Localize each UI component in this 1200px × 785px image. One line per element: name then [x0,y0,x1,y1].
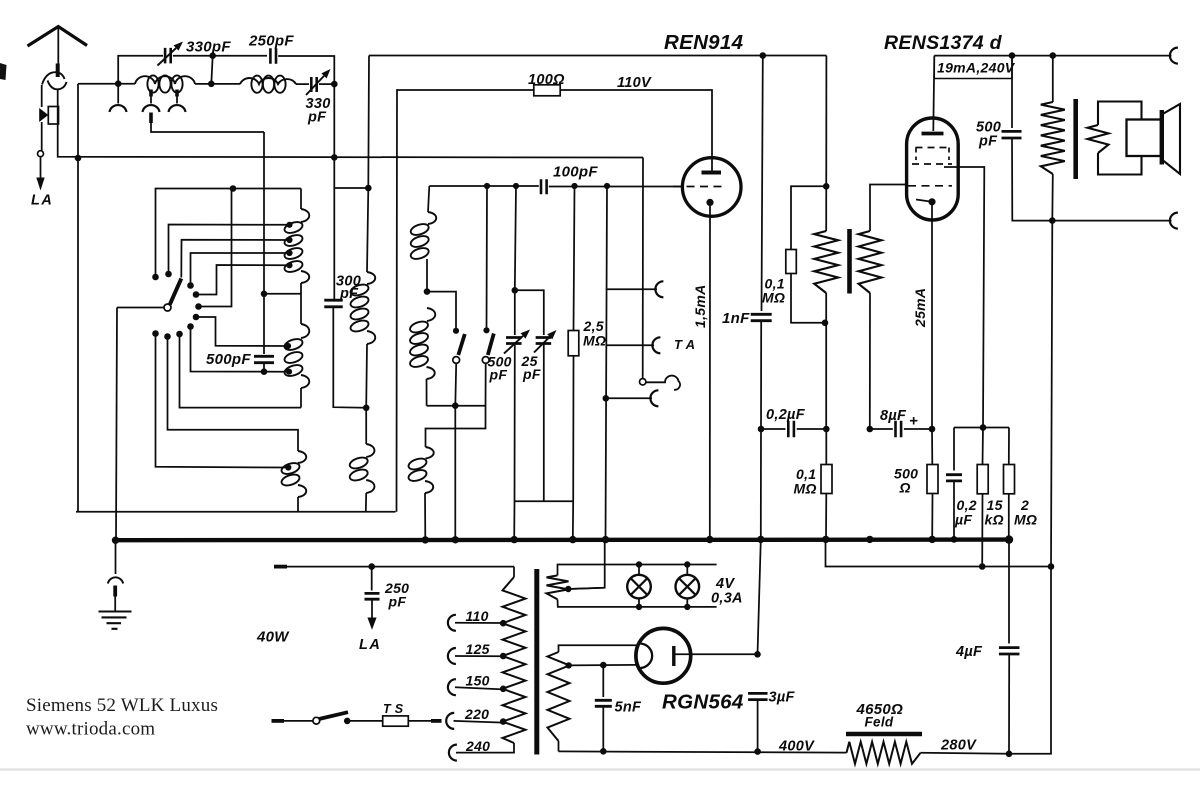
svg-text:pF: pF [339,286,359,302]
svg-text:T S: T S [383,702,404,716]
tube REN914 anode [702,171,722,175]
wire switch S2b column [486,186,489,328]
svg-text:0,3A: 0,3A [711,591,743,607]
svg-text:280V: 280V [940,738,977,754]
speaker cone bar [1160,110,1164,165]
wire contact j to mid coil bottom [180,334,302,408]
scan artefact bottom band [0,768,1200,770]
terminal lower [606,397,652,399]
trimmer capacitor 330pF no.2 [311,77,316,92]
resistor 15kohm [982,428,985,465]
svg-text:Ω: Ω [899,480,911,496]
svg-text:25mA: 25mA [912,288,928,328]
coil L3 middle section [301,324,309,338]
svg-text:+: + [909,413,918,430]
tube REN914 cathode [706,199,713,206]
svg-text:RGN564: RGN564 [662,691,744,714]
coil L3 lower section [298,451,306,463]
svg-text:0,2µF: 0,2µF [766,407,806,423]
svg-text:5nF: 5nF [615,700,643,716]
svg-text:Feld: Feld [865,715,894,730]
tube REN914 envelope [682,158,741,217]
wire HT rail drop left [367,56,370,189]
switch S1 rotor [117,307,164,309]
svg-text:LA: LA [31,193,53,209]
wire reaction link [426,406,486,447]
wire 100ohm column [397,90,534,512]
svg-text:pF: pF [978,134,998,150]
wire heater centre tap [568,588,604,589]
wire contact g to mid tap2 [191,327,290,372]
wire coil tap to band coil feed [151,123,264,132]
antenna A1 [28,27,88,47]
wire link to 330pF column [335,187,369,189]
capacitor 500pF speaker [1011,56,1013,128]
coil L4 [367,188,368,272]
coil L2 bandfilter [240,78,296,84]
switch S1 contacts right [187,282,194,289]
scan artefact left edge [0,63,7,80]
capacitor 300pF [324,300,343,307]
switch S1 contacts lower [152,330,159,337]
svg-text:MΩ: MΩ [583,333,606,349]
trimmer capacitor 330pF no.1 [165,48,171,64]
wire 100pF to tube grid [549,186,683,188]
coil L6 lower [427,308,435,321]
svg-text:250pF: 250pF [248,33,294,50]
transformer TR1 heater winding [558,565,717,576]
speaker magnet box [1127,120,1162,157]
capacitor 1nF [762,56,763,312]
wire 250pF to corner [278,56,334,84]
svg-text:40W: 40W [256,629,290,646]
svg-text:pF: pF [388,594,407,610]
terminal 110 tap [455,622,503,624]
svg-text:1,5mA: 1,5mA [692,284,708,328]
node tap dots upper coil [286,222,292,228]
svg-text:MΩ: MΩ [762,290,785,306]
wire pickup switch column [642,158,644,379]
transformer TR3 core [1073,99,1078,179]
terminal 240 tap [449,745,457,761]
lamp dial no.1 [638,565,640,575]
svg-text:100pF: 100pF [553,164,598,181]
coil L3 upper section [300,189,302,210]
transformer TR2 primary [814,231,838,293]
terminal 220 tap [454,721,504,723]
wire 25pF branch [515,290,544,335]
svg-text:400V: 400V [778,739,815,755]
coil L7 feedback [426,447,434,459]
terminal HT right top [1170,48,1178,64]
transformer TR3 primary [1052,56,1054,102]
resistor 100ohm [534,85,560,96]
wire 110V to REN914 anode [560,90,712,171]
wire antenna to input bus [58,90,643,158]
resistor 0,1Mohm bias [825,429,827,465]
switch S2a [453,328,459,334]
svg-text:110V: 110V [617,75,652,91]
transformer TR1 primary [513,567,515,577]
wire contact d to tap4 [196,265,290,295]
tube REN914 grid dashes [673,186,727,188]
terminal TA [606,344,654,346]
resistor 4650ohm field coil [847,742,921,764]
capacitor 100pF grid [541,179,547,194]
svg-text:8µF: 8µF [880,408,907,424]
switch S2b [483,327,489,333]
wire TR2 secondary top to RENS grid [870,185,906,232]
antenna plug connector [56,64,60,78]
wire RENS cathode 25mA [931,202,933,429]
svg-text:MΩ: MΩ [1014,512,1037,528]
transformer TR2 secondary [859,231,882,293]
capacitor 5nF [602,665,604,697]
wire antenna primary return (left long vertical) [77,84,79,512]
socket terminal left [117,84,119,104]
svg-text:110: 110 [466,608,489,624]
capacitor 3uF [758,539,761,654]
wire S2a to ground bus [454,406,456,540]
wire trimmer common [515,500,574,502]
wire grid wire left corner [428,186,429,212]
node tap dots middle coil [285,343,291,349]
wire contact a to coil top [156,189,302,278]
svg-text:240: 240 [465,738,490,754]
wire contact i to low coil top [168,337,299,452]
node tap dot lower coil [285,464,291,470]
switch mains [313,717,320,724]
capacitor 500pF fixed [263,132,265,354]
wire switch left arm to ground bus [116,308,117,541]
svg-text:500pF: 500pF [206,351,251,368]
svg-text:LA: LA [359,637,381,653]
wire REN914 cathode to ground bus [709,202,711,539]
wire HV return 400V [559,751,847,752]
svg-text:19mA,240V: 19mA,240V [937,60,1016,76]
svg-text:3µF: 3µF [769,690,796,706]
tube RENS cathode [916,200,930,202]
tube RGN564 anode [672,646,675,666]
wire RF column to output [1009,221,1052,754]
coil L1 primary [135,76,195,84]
tube RGN564 filament [641,644,653,669]
wire TR2 secondary bottom [869,293,871,429]
wire 500pF feed [261,291,268,298]
svg-text:125: 125 [466,641,490,657]
node TR1 taps [500,620,507,627]
wire anode bracket [954,427,1009,429]
terminal speaker lower [1170,213,1178,229]
wire contact c to tap3 [191,253,290,286]
capacitor 250pF mains [371,567,373,591]
wire HV tap to rectifier filament [569,664,637,667]
terminal phones upper [606,288,657,290]
wire RENS anode out [944,167,984,428]
wire RENS top cap [933,56,934,131]
wire tank bottom bus [76,511,396,513]
tube RGN564 envelope [636,628,691,683]
capacitor 0,2uF tone [953,428,955,471]
fuse TS [347,720,383,722]
svg-text:220: 220 [464,706,489,722]
coil L5 lower [365,408,367,444]
svg-text:4µF: 4µF [955,644,983,660]
wire antenna coil primary top [78,83,135,85]
wire mains lead top [274,565,287,569]
wire contact e up to coil top net [199,189,232,307]
wire lever line to tap2 [181,240,289,278]
switch pickup contact [640,379,646,385]
trimmer 500pF column [515,186,516,290]
svg-text:pF: pF [489,367,508,383]
capacitor 0,2uF coupling [761,428,786,430]
wire contact f to mid tap1 [196,317,288,346]
capacitor 4uF [1008,540,1010,644]
transformer TR3 secondary and speaker frame [1098,102,1142,175]
lamp dial no.2 [686,565,688,575]
coil L6 upper [428,212,436,224]
wire feedback net [826,540,1052,567]
resistor 0,1Mohm grid [791,186,826,249]
wire HT centre line [568,540,604,589]
capacitor 250pF [270,48,276,64]
wire REN914 grid line [429,185,539,187]
resistor 2Mohm [1008,428,1010,465]
svg-text:MΩ: MΩ [794,481,817,497]
svg-text:REN914: REN914 [664,31,744,54]
wire trimmer1 to 250pF [173,55,267,57]
tube RENS anode cap bar [922,132,944,136]
ground symbol [115,540,117,574]
svg-text:www.trioda.com: www.trioda.com [26,719,155,740]
wire mains lead bottom [272,719,285,723]
svg-text:100Ω: 100Ω [528,72,565,88]
socket terminal right [175,90,179,97]
wire ground bus [116,537,1010,542]
svg-text:150: 150 [466,672,490,688]
tube RENS screen dashes [916,147,950,149]
wire 280V [921,753,1010,754]
switch S1 contacts upper [152,274,159,281]
svg-text:kΩ: kΩ [985,512,1004,528]
wire anode feed to transformer [825,56,827,232]
resistor 500ohm cathode [931,429,933,465]
wire TR2 primary bottom [825,293,827,429]
wire HT rail left section [369,55,826,57]
terminal 150 tap [455,687,503,689]
svg-text:Siemens 52 WLK Luxus: Siemens 52 WLK Luxus [26,695,218,716]
node bus junctions [112,537,119,544]
lightning arrester F1 [41,85,43,107]
wire rectifier output [675,653,758,655]
speaker cone [1162,104,1180,174]
wire 300pF bottom to oscillator coil [333,307,366,408]
transformer TR1 core [534,569,539,755]
node LA terminal [38,151,44,157]
wire column x334 down to 300pF [333,84,335,299]
wire contact b to tap1 [169,225,290,275]
svg-text:pF: pF [307,110,327,126]
trimmer 25pF [536,338,552,344]
svg-text:µF: µF [954,512,972,528]
tube RENS grid dashes [908,185,952,187]
wire contact h to low tap [156,334,289,468]
svg-text:pF: pF [522,366,541,382]
terminal 125 tap [455,655,503,657]
resistor 2.5Mohm grid leak [574,186,575,331]
wire HT rail right section [934,55,1171,57]
svg-text:330pF: 330pF [186,39,231,56]
wire detector output column [606,186,608,539]
wire top link left [118,56,163,84]
socket terminal middle with plug [149,90,153,97]
svg-text:1nF: 1nF [722,310,750,327]
wire switch S2a branch [427,292,456,328]
svg-text:T A: T A [674,337,695,352]
transformer TR1 HV winding [559,645,638,652]
tube RENS1374d envelope [907,118,959,220]
transformer TR2 core [847,229,852,294]
capacitor 8uF [870,428,893,430]
svg-text:RENS1374 d: RENS1374 d [884,32,1003,54]
